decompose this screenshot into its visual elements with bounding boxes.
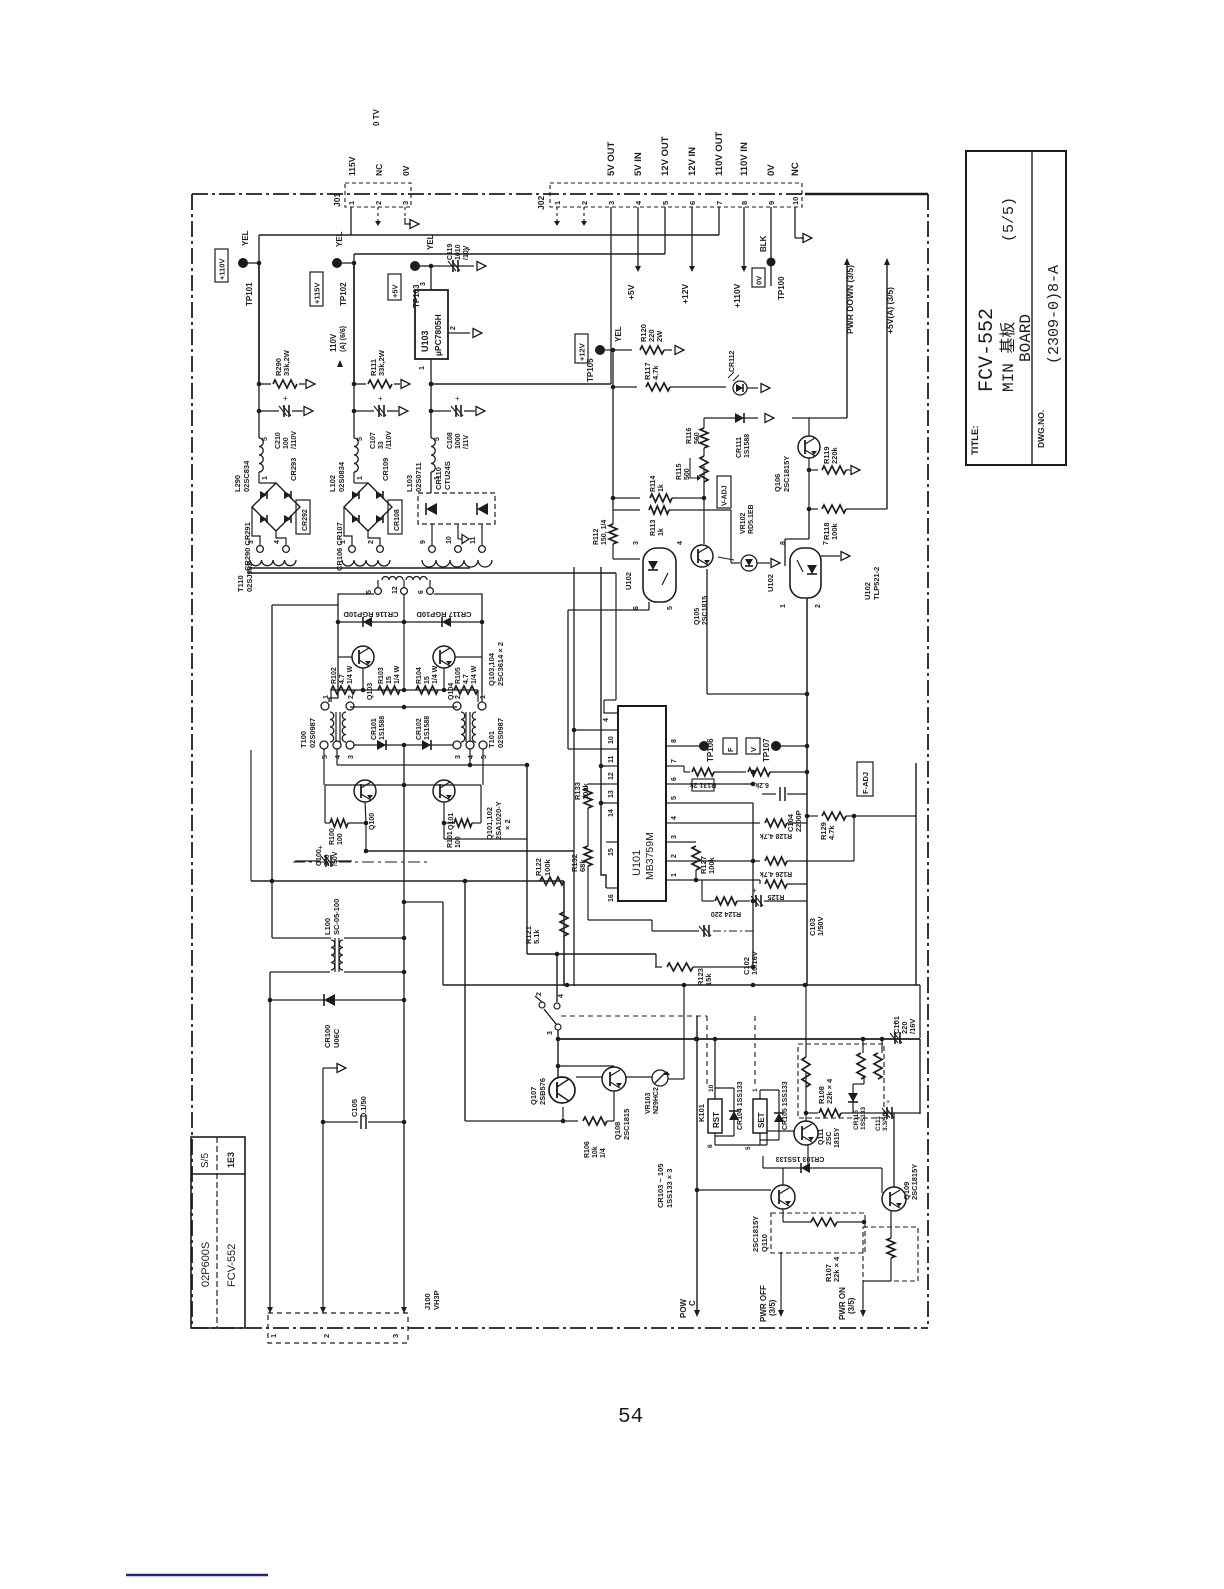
wire bottom rail B bbox=[558, 1037, 920, 1114]
svg-text:12: 12 bbox=[608, 772, 615, 780]
svg-text:CR104 1SS133: CR104 1SS133 bbox=[737, 1081, 744, 1130]
diode CR102 1S1588 bbox=[416, 716, 453, 750]
svg-text:F-ADJ: F-ADJ bbox=[861, 772, 870, 794]
svg-text:1: 1 bbox=[347, 201, 356, 205]
resistor R126 4.7k bbox=[676, 816, 854, 877]
svg-text:Q111: Q111 bbox=[818, 1129, 825, 1145]
wire R122 to rail bbox=[563, 881, 565, 986]
blue underline bbox=[126, 1574, 268, 1577]
svg-text:TP103: TP103 bbox=[412, 284, 421, 308]
svg-text:3: 3 bbox=[420, 282, 427, 286]
svg-text:T101: T101 bbox=[487, 731, 496, 748]
svg-text:(2309-0)8-A: (2309-0)8-A bbox=[1046, 265, 1063, 364]
wire POW C bbox=[679, 1016, 771, 1318]
diode CR108 bbox=[388, 500, 402, 534]
resistor R125 4.7k bbox=[676, 878, 807, 900]
transformer T101 02S0987 bbox=[453, 695, 505, 759]
wire 5V OUT (pin3) bbox=[608, 207, 614, 384]
svg-text:+: + bbox=[318, 843, 323, 852]
transistor Q103 bbox=[352, 646, 374, 700]
svg-text:1: 1 bbox=[323, 695, 330, 699]
svg-text:+110V: +110V bbox=[732, 283, 742, 308]
wire +115V rail bbox=[354, 254, 665, 263]
svg-text:33k,2W: 33k,2W bbox=[377, 349, 386, 376]
svg-text:+12V: +12V bbox=[577, 343, 586, 361]
svg-text:L102: L102 bbox=[328, 475, 337, 492]
svg-text:4.7: 4.7 bbox=[463, 674, 470, 684]
svg-text:54: 54 bbox=[618, 1406, 643, 1429]
svg-text:R104: R104 bbox=[416, 667, 423, 684]
svg-text:150, 1/4: 150, 1/4 bbox=[601, 520, 608, 545]
transformer T110 secondary windings bbox=[236, 560, 492, 592]
rectifier CR110 CTU24S bbox=[418, 461, 495, 552]
svg-text:Q101,102: Q101,102 bbox=[485, 807, 494, 840]
svg-text:CR293: CR293 bbox=[289, 458, 298, 481]
resistor R104 bbox=[416, 665, 439, 694]
wire +115V cell rail bbox=[353, 263, 355, 384]
wire left loop verticals bbox=[270, 745, 406, 1313]
svg-text:U101: U101 bbox=[631, 850, 643, 876]
wires Q100/Q101 bases bbox=[324, 705, 529, 788]
inductor L103 bbox=[405, 384, 441, 492]
svg-text:5: 5 bbox=[357, 437, 364, 441]
inductor L102 bbox=[328, 384, 364, 492]
svg-text:+: + bbox=[893, 1019, 898, 1028]
wires Q111 region bbox=[767, 1073, 920, 1170]
IC U101 MB3759M bbox=[603, 573, 666, 901]
resistor R120 220 2W bbox=[613, 324, 684, 354]
resistor R131 2k bbox=[676, 766, 738, 791]
svg-text:CR116 RGP10D: CR116 RGP10D bbox=[343, 610, 399, 619]
svg-text:BOARD: BOARD bbox=[1017, 314, 1035, 362]
wire J01 pin1 to +110V rail bbox=[350, 207, 352, 235]
diode CR115 1SS133 bbox=[848, 1075, 867, 1130]
wire feedback vertical 1 bbox=[573, 567, 575, 986]
svg-text:MB3759M: MB3759M bbox=[644, 832, 656, 880]
svg-text:U103: U103 bbox=[420, 330, 430, 352]
svg-text:9: 9 bbox=[420, 540, 427, 544]
svg-text:2: 2 bbox=[815, 604, 822, 608]
wire +5V rail bbox=[430, 266, 432, 290]
svg-text:FCV-552: FCV-552 bbox=[226, 1244, 238, 1287]
svg-text:R112: R112 bbox=[593, 529, 600, 545]
connector J100 VH3P bbox=[267, 1290, 441, 1343]
svg-text:6.2k: 6.2k bbox=[755, 781, 769, 788]
svg-text:10k: 10k bbox=[592, 1146, 599, 1158]
svg-text:FCV-552: FCV-552 bbox=[976, 308, 999, 392]
svg-text:16: 16 bbox=[608, 894, 615, 902]
svg-text:CR103 1SS133: CR103 1SS133 bbox=[776, 1155, 825, 1162]
svg-text:/50V: /50V bbox=[332, 851, 339, 866]
chain line mid bbox=[293, 861, 430, 863]
wire rail to L100 bbox=[364, 823, 574, 985]
svg-text:110V: 110V bbox=[329, 333, 338, 352]
svg-text:4: 4 bbox=[603, 718, 610, 722]
wire pins 10-12 left bbox=[568, 728, 606, 769]
svg-text:1S1588: 1S1588 bbox=[744, 434, 751, 458]
resistor R111 bbox=[352, 349, 410, 388]
svg-text:8: 8 bbox=[671, 739, 678, 743]
LED CR112 bbox=[728, 350, 770, 395]
svg-text:C108: C108 bbox=[447, 432, 454, 449]
diode CR292 bbox=[296, 500, 310, 534]
svg-text:Q110: Q110 bbox=[760, 1234, 769, 1252]
wire +12V in (pin6) bbox=[680, 207, 695, 304]
svg-text:15: 15 bbox=[608, 848, 615, 856]
capacitor C111 3.3/50 bbox=[875, 1099, 894, 1131]
svg-text:8: 8 bbox=[780, 541, 787, 545]
J02 pin labels bbox=[606, 131, 801, 176]
svg-text:1SS133: 1SS133 bbox=[860, 1106, 867, 1130]
title block bbox=[966, 151, 1066, 465]
svg-text:5: 5 bbox=[481, 755, 488, 759]
transistor Q100 bbox=[354, 780, 376, 830]
diode CR104 1SS133 bbox=[715, 1081, 744, 1136]
wire feedback vertical 2 bbox=[601, 567, 606, 888]
svg-text:PWR OFF: PWR OFF bbox=[759, 1285, 768, 1322]
svg-text:+5V: +5V bbox=[390, 284, 399, 298]
svg-text:TITLE:: TITLE: bbox=[970, 425, 981, 455]
wire 12V OUT (pin5) bbox=[664, 207, 666, 254]
svg-text:TP100: TP100 bbox=[777, 276, 786, 300]
svg-text:6: 6 bbox=[688, 201, 697, 205]
svg-text:R114: R114 bbox=[650, 476, 657, 492]
diode CR101 1S1588 bbox=[354, 716, 423, 750]
svg-text:22k × 4: 22k × 4 bbox=[825, 1078, 834, 1104]
wire U101 bottom rails bbox=[751, 766, 807, 967]
svg-text:7: 7 bbox=[715, 201, 724, 205]
svg-text:TP101: TP101 bbox=[245, 282, 254, 306]
svg-text:100: 100 bbox=[455, 836, 462, 848]
svg-text:(5/5): (5/5) bbox=[1001, 197, 1018, 242]
svg-text:CR117 RGP10D: CR117 RGP10D bbox=[416, 610, 472, 619]
connector J02 bbox=[536, 183, 802, 210]
resistor R290 bbox=[257, 349, 315, 388]
svg-text:CTU24S: CTU24S bbox=[443, 461, 452, 490]
svg-text:1/4 W: 1/4 W bbox=[432, 665, 439, 684]
svg-text:C111: C111 bbox=[875, 1116, 882, 1131]
diode CR111 1S1588 bbox=[704, 413, 774, 458]
transistor Q110 2SC1815Y bbox=[751, 1168, 795, 1252]
J02 pin1-2 stubs bbox=[554, 207, 587, 226]
transformer T100 02S0987 bbox=[299, 695, 355, 759]
svg-text:10: 10 bbox=[708, 1084, 715, 1092]
svg-text:100k: 100k bbox=[707, 856, 716, 874]
svg-text:3: 3 bbox=[607, 201, 616, 205]
svg-text:V-ADJ: V-ADJ bbox=[722, 485, 729, 506]
wire drive rail vertical bbox=[464, 881, 466, 1121]
svg-text:1: 1 bbox=[752, 1088, 759, 1092]
transformer pins ['1', '2'] bbox=[340, 540, 383, 552]
capacitor C105 bbox=[321, 1096, 407, 1129]
svg-text:DWG.NO.: DWG.NO. bbox=[1036, 410, 1046, 448]
svg-text:5: 5 bbox=[322, 755, 329, 759]
resistor R130 6.2k bbox=[738, 768, 807, 788]
svg-text:10: 10 bbox=[446, 536, 453, 544]
svg-text:7: 7 bbox=[823, 541, 830, 545]
svg-text:3: 3 bbox=[547, 1031, 554, 1035]
resistor R129 4.7k bbox=[805, 812, 916, 840]
resistor network R108 22k x4 bbox=[798, 985, 884, 1118]
svg-text:V: V bbox=[749, 747, 758, 752]
svg-text:02S0834: 02S0834 bbox=[337, 461, 346, 492]
svg-text:10/16V: 10/16V bbox=[750, 951, 759, 975]
svg-text:R122: R122 bbox=[534, 858, 543, 876]
svg-text:7: 7 bbox=[671, 759, 678, 763]
svg-text:6: 6 bbox=[707, 1144, 714, 1148]
svg-text:SET: SET bbox=[757, 1112, 766, 1128]
svg-text:02SJ982: 02SJ982 bbox=[245, 562, 254, 592]
svg-text:2SC: 2SC bbox=[826, 1131, 833, 1145]
resistor R124 220 / capacitor C103 bbox=[676, 880, 825, 936]
wire +5V(A) (3/5) bbox=[884, 258, 895, 509]
svg-text:15k: 15k bbox=[704, 973, 713, 986]
wire pin5 bbox=[676, 802, 753, 804]
svg-text:POW: POW bbox=[679, 1298, 688, 1318]
wire +12V vertical bbox=[612, 350, 614, 510]
svg-text:× 2: × 2 bbox=[503, 819, 512, 830]
ground arrow J02 pin10 bbox=[795, 207, 812, 243]
svg-text:U102: U102 bbox=[766, 574, 775, 592]
svg-text:K101: K101 bbox=[697, 1104, 706, 1122]
capacitor C107 bbox=[352, 394, 408, 449]
svg-text:5V OUT: 5V OUT bbox=[606, 141, 617, 176]
svg-text:R115: R115 bbox=[676, 464, 683, 480]
svg-text:CR101: CR101 bbox=[371, 718, 378, 740]
svg-text:R128 4.7k: R128 4.7k bbox=[760, 832, 792, 839]
svg-text:100: 100 bbox=[283, 437, 290, 449]
svg-text:3: 3 bbox=[248, 540, 255, 544]
svg-text:CR109: CR109 bbox=[381, 458, 390, 481]
svg-text:3: 3 bbox=[633, 541, 640, 545]
svg-text:C105: C105 bbox=[350, 1099, 359, 1117]
diode CR100 U06C bbox=[268, 994, 407, 1048]
svg-text:1/4 W: 1/4 W bbox=[347, 665, 354, 684]
resistor R119 220k bbox=[809, 446, 860, 509]
wire base resistor row bbox=[331, 668, 478, 702]
svg-text:11: 11 bbox=[470, 536, 477, 544]
diode CR116 RGP10D bbox=[338, 610, 404, 627]
svg-text:6: 6 bbox=[418, 590, 425, 594]
resistor R121 5.1k bbox=[524, 881, 568, 986]
wire +5V in (pin4) bbox=[626, 207, 641, 300]
drawing frame (chain border) bbox=[192, 194, 928, 1328]
wire PWR DOWN (3/5) bbox=[844, 258, 855, 418]
svg-text:8: 8 bbox=[740, 201, 749, 205]
transistor Q107 2SB576 bbox=[529, 1066, 614, 1105]
test point TP101 +110V bbox=[215, 230, 261, 306]
svg-text:115V: 115V bbox=[347, 156, 357, 176]
svg-text:R102: R102 bbox=[331, 667, 338, 684]
label Q103,104 2SC3614 x2 bbox=[487, 642, 505, 686]
relay K101 SET coil bbox=[715, 1088, 767, 1150]
svg-text:U06C: U06C bbox=[332, 1028, 341, 1048]
resistor R117 4.7k bbox=[611, 362, 726, 391]
svg-text:J100: J100 bbox=[423, 1293, 432, 1310]
svg-text:R126 4.7k: R126 4.7k bbox=[760, 870, 792, 877]
svg-text:R106: R106 bbox=[584, 1141, 591, 1158]
regulator U103 uPC7805H bbox=[415, 282, 482, 384]
svg-text:0V: 0V bbox=[401, 165, 411, 176]
transistor Q106 2SC1815Y bbox=[773, 418, 847, 492]
svg-text:3: 3 bbox=[348, 755, 355, 759]
capacitor C104 2200P bbox=[676, 782, 807, 832]
ground arrow J01 pin3 bbox=[405, 207, 419, 229]
test point TP106 bbox=[676, 738, 737, 762]
resistor R118 100k bbox=[807, 505, 887, 540]
wire PWR ON (3/5) bbox=[838, 1281, 891, 1320]
svg-text:10: 10 bbox=[791, 197, 800, 205]
zener VR102 RD5.1EB bbox=[718, 504, 780, 571]
svg-text:2: 2 bbox=[368, 540, 375, 544]
wire bottom rail A bbox=[443, 983, 920, 1038]
test point TP107 bbox=[746, 738, 807, 762]
svg-text:/110V: /110V bbox=[291, 431, 298, 449]
svg-text:1/4 W: 1/4 W bbox=[394, 665, 401, 684]
svg-text:TP105: TP105 bbox=[586, 358, 595, 382]
svg-text:1: 1 bbox=[671, 873, 678, 877]
svg-text:2: 2 bbox=[450, 326, 457, 330]
svg-text:R125: R125 bbox=[768, 893, 785, 900]
svg-text:C: C bbox=[688, 1300, 697, 1306]
power switch S100 bbox=[535, 992, 565, 1077]
wire secondary common rail bbox=[248, 568, 616, 573]
svg-text:5V IN: 5V IN bbox=[633, 152, 644, 176]
wire Q105 collector bbox=[703, 498, 705, 544]
svg-text:2200P: 2200P bbox=[794, 810, 803, 832]
svg-text:4: 4 bbox=[558, 994, 565, 998]
svg-text:T100: T100 bbox=[299, 731, 308, 748]
resistor R106 10k 1/4 bbox=[465, 1091, 614, 1158]
wire +110V rail bbox=[259, 235, 719, 263]
svg-text:100: 100 bbox=[337, 833, 344, 845]
svg-text:2SA1020-Y: 2SA1020-Y bbox=[494, 801, 503, 840]
transistor Q111 2SC1815Y bbox=[794, 1121, 841, 1148]
F-ADJ label bbox=[857, 762, 873, 796]
transistor Q105 2SC1815 bbox=[691, 545, 713, 625]
svg-text:R113: R113 bbox=[650, 520, 657, 536]
svg-text:U102: U102 bbox=[863, 582, 872, 600]
svg-text:+: + bbox=[283, 394, 288, 403]
svg-text:2SC3614 × 2: 2SC3614 × 2 bbox=[496, 642, 505, 686]
svg-text:Q100: Q100 bbox=[369, 813, 376, 830]
svg-text:VH3P: VH3P bbox=[432, 1290, 441, 1310]
transistor Q104 bbox=[433, 646, 455, 700]
capacitor C102 10/16V bbox=[652, 925, 759, 975]
transformer T110 primary bbox=[366, 577, 433, 595]
svg-text:RST: RST bbox=[712, 1112, 721, 1128]
svg-text:15: 15 bbox=[424, 676, 431, 684]
svg-text:+: + bbox=[455, 394, 460, 403]
svg-text:L100: L100 bbox=[323, 918, 332, 935]
svg-text:1010: 1010 bbox=[455, 244, 462, 260]
svg-text:2: 2 bbox=[580, 201, 589, 205]
test point TP105 +12V bbox=[575, 326, 623, 382]
svg-text:NC: NC bbox=[790, 162, 801, 176]
svg-text:560: 560 bbox=[694, 432, 701, 444]
svg-text:110V OUT: 110V OUT bbox=[714, 131, 725, 176]
wire +110V in (pin8) bbox=[732, 207, 747, 308]
svg-text:/16V: /16V bbox=[908, 1019, 917, 1034]
svg-text:J01: J01 bbox=[332, 193, 342, 207]
svg-text:+5V(A) (3/5): +5V(A) (3/5) bbox=[885, 287, 895, 334]
svg-text:2SC1815: 2SC1815 bbox=[702, 596, 709, 625]
resistor R102 bbox=[331, 665, 355, 694]
svg-text:12V OUT: 12V OUT bbox=[660, 136, 671, 176]
svg-text:0.1/50: 0.1/50 bbox=[359, 1096, 368, 1117]
svg-text:VR103: VR103 bbox=[645, 1092, 652, 1114]
svg-text:500: 500 bbox=[684, 468, 691, 480]
svg-text:Q103,104: Q103,104 bbox=[487, 652, 496, 686]
wire +5V node bbox=[429, 382, 434, 387]
capacitor C108 bbox=[429, 394, 485, 449]
svg-text:110V IN: 110V IN bbox=[739, 142, 750, 176]
label U102 TLP521-2 bbox=[863, 567, 881, 600]
svg-text:N29HC2: N29HC2 bbox=[653, 1087, 660, 1114]
svg-text:3: 3 bbox=[401, 201, 410, 205]
svg-text:1S1588: 1S1588 bbox=[379, 716, 386, 740]
resistor R116 560 bbox=[686, 428, 708, 498]
svg-text:33: 33 bbox=[378, 441, 385, 449]
bridge rectifier CR106 CR107 bbox=[335, 458, 392, 571]
diode CR105 1SS133 bbox=[760, 1081, 789, 1140]
resistor R122 bbox=[534, 858, 564, 885]
svg-text:CR112: CR112 bbox=[729, 350, 736, 372]
wire switch feed bbox=[527, 765, 656, 1002]
svg-text:220k: 220k bbox=[830, 446, 839, 464]
svg-text:C210: C210 bbox=[275, 432, 282, 449]
svg-text:L290: L290 bbox=[233, 475, 242, 492]
svg-text:1: 1 bbox=[419, 366, 426, 370]
svg-text:C107: C107 bbox=[370, 432, 377, 449]
svg-text:5: 5 bbox=[661, 201, 670, 205]
svg-text:SC-05-100: SC-05-100 bbox=[332, 899, 341, 935]
svg-text:02S0711: 02S0711 bbox=[414, 462, 423, 492]
svg-text:33k,2W: 33k,2W bbox=[282, 349, 291, 376]
svg-text:3: 3 bbox=[455, 755, 462, 759]
capacitor C101 220/16V bbox=[890, 1016, 917, 1044]
test point TP103 +5V bbox=[388, 234, 435, 308]
label Q101,102 2SA1020-Y x2 bbox=[485, 801, 512, 840]
svg-text:5: 5 bbox=[667, 606, 674, 610]
capacitor C100 bbox=[295, 843, 352, 867]
resistor R112 150 1/4 bbox=[593, 510, 640, 559]
svg-text:CR102: CR102 bbox=[416, 718, 423, 740]
transistor Q108 2SC1815 bbox=[602, 1066, 631, 1140]
svg-text:TP102: TP102 bbox=[339, 282, 348, 306]
svg-text:J02: J02 bbox=[536, 196, 546, 210]
svg-text:R116: R116 bbox=[686, 428, 693, 444]
transistor Q101 bbox=[433, 780, 455, 830]
svg-text:+: + bbox=[886, 1099, 890, 1106]
test point TP102 +115V bbox=[310, 231, 356, 306]
wire Q106 base from opto bbox=[785, 509, 809, 566]
optocoupler U102 (a) bbox=[624, 541, 684, 610]
resistor R123 15k bbox=[655, 963, 755, 986]
svg-text:+110V: +110V bbox=[217, 259, 226, 280]
svg-text:2SC1815: 2SC1815 bbox=[622, 1109, 631, 1140]
svg-text:(A) (6/6): (A) (6/6) bbox=[340, 326, 347, 352]
svg-text:CR292: CR292 bbox=[302, 509, 309, 531]
svg-text:RD5.1EB: RD5.1EB bbox=[748, 504, 755, 534]
resistor R101 bbox=[442, 785, 481, 848]
svg-text:100k: 100k bbox=[830, 522, 839, 540]
svg-text:2: 2 bbox=[348, 695, 355, 699]
svg-text:1/4 W: 1/4 W bbox=[471, 665, 478, 684]
svg-text:2: 2 bbox=[374, 201, 383, 205]
svg-text:F: F bbox=[726, 747, 735, 752]
svg-text:4: 4 bbox=[671, 816, 678, 820]
